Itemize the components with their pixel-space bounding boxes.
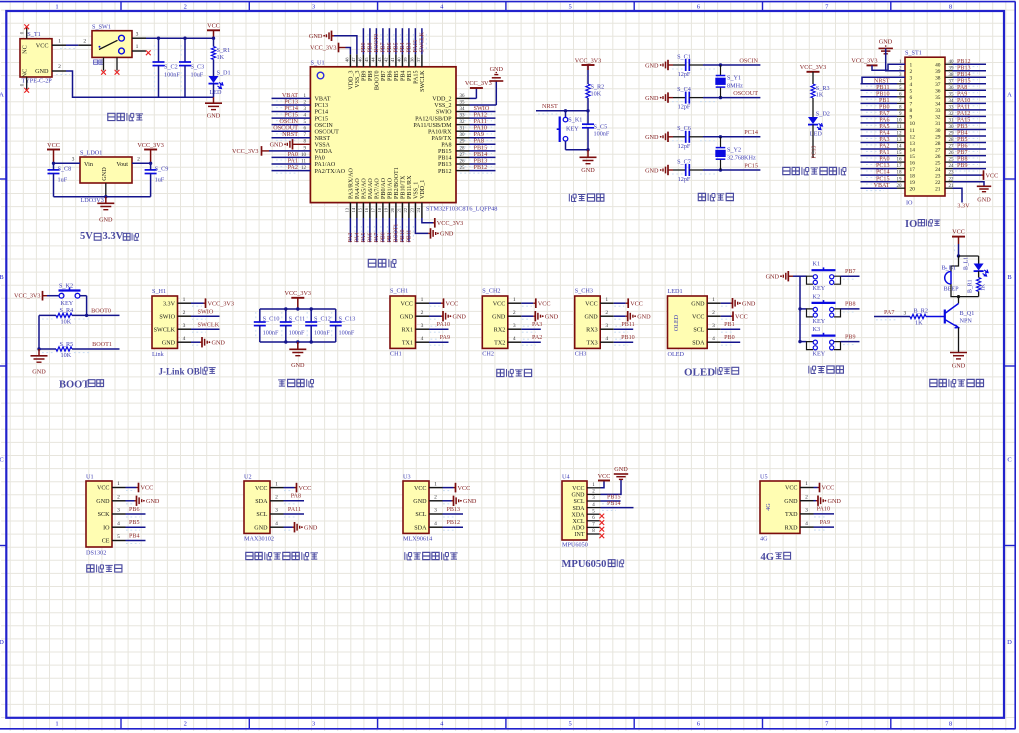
svg-text:GND: GND	[413, 499, 427, 505]
svg-text:PB5: PB5	[957, 137, 968, 143]
svg-text:2: 2	[910, 69, 913, 75]
svg-text:C: C	[0, 457, 4, 464]
svg-text:1K: 1K	[217, 54, 225, 61]
svg-text:PB6: PB6	[957, 144, 968, 150]
svg-text:GND: GND	[35, 68, 49, 75]
svg-text:PA7: PA7	[374, 233, 380, 243]
svg-text:12pF: 12pF	[678, 176, 691, 183]
svg-text:12pF: 12pF	[678, 104, 691, 111]
svg-text:4: 4	[275, 521, 278, 527]
svg-text:9: 9	[910, 115, 913, 121]
svg-text:VCC: VCC	[299, 485, 312, 492]
svg-text:LED: LED	[810, 131, 823, 138]
svg-text:PC13: PC13	[812, 146, 818, 159]
svg-text:37: 37	[935, 82, 941, 88]
svg-text:OSCOUT: OSCOUT	[733, 90, 758, 97]
svg-text:RX2: RX2	[494, 327, 506, 333]
svg-text:3: 3	[72, 156, 75, 162]
svg-text:1: 1	[55, 3, 58, 10]
svg-text:NC: NC	[22, 45, 29, 54]
svg-text:4: 4	[805, 521, 808, 527]
svg-text:28: 28	[935, 141, 941, 147]
svg-text:OLED: OLED	[674, 314, 680, 331]
svg-text:10K: 10K	[61, 319, 72, 326]
svg-text:PC14: PC14	[876, 170, 890, 176]
svg-text:5V: 5V	[80, 231, 93, 242]
svg-text:34: 34	[935, 102, 941, 108]
svg-text:PB12: PB12	[446, 520, 460, 526]
svg-text:OSCIN: OSCIN	[315, 123, 334, 129]
svg-text:VCC: VCC	[141, 485, 154, 492]
svg-text:2: 2	[513, 310, 516, 316]
svg-text:37: 37	[416, 57, 421, 62]
svg-text:SCK: SCK	[98, 512, 110, 518]
svg-text:33: 33	[935, 108, 941, 114]
svg-text:VCC: VCC	[692, 314, 705, 320]
svg-text:KEY: KEY	[566, 125, 579, 132]
svg-text:18: 18	[910, 173, 916, 179]
svg-text:GND: GND	[545, 314, 559, 321]
svg-text:1: 1	[434, 481, 437, 487]
svg-text:3: 3	[117, 508, 120, 514]
svg-text:INT: INT	[575, 532, 585, 538]
svg-text:S_C11: S_C11	[289, 316, 306, 323]
svg-text:PA0: PA0	[315, 156, 325, 162]
svg-text:GND: GND	[309, 33, 323, 40]
svg-text:10K: 10K	[61, 352, 72, 359]
svg-text:GND: GND	[766, 274, 780, 281]
svg-text:RX1: RX1	[401, 327, 413, 333]
svg-text:23: 23	[935, 173, 941, 179]
svg-text:VDD_1: VDD_1	[420, 180, 426, 199]
svg-text:S_C10: S_C10	[263, 316, 280, 323]
svg-text:PB12: PB12	[474, 164, 488, 171]
svg-text:VCC_3V3: VCC_3V3	[437, 220, 463, 227]
svg-text:VCC: VCC	[952, 229, 965, 236]
svg-text:VSS_1: VSS_1	[414, 182, 420, 199]
svg-text:48: 48	[345, 57, 350, 62]
svg-text:BOOT1: BOOT1	[92, 341, 112, 348]
svg-text:100nF: 100nF	[314, 329, 330, 336]
svg-text:S_C8: S_C8	[58, 165, 72, 172]
svg-text:GND: GND	[977, 197, 991, 204]
svg-text:100nF: 100nF	[339, 329, 355, 336]
svg-text:PA7: PA7	[879, 111, 889, 117]
svg-text:GND: GND	[581, 167, 595, 174]
svg-text:PA1: PA1	[879, 150, 889, 156]
svg-text:PB5: PB5	[129, 520, 140, 526]
svg-text:6: 6	[910, 95, 913, 101]
svg-text:TX3: TX3	[587, 340, 598, 346]
svg-text:GND: GND	[99, 216, 113, 223]
svg-text:S_C2: S_C2	[164, 63, 178, 70]
svg-text:1: 1	[421, 297, 424, 303]
svg-text:2: 2	[421, 310, 424, 316]
svg-text:GND: GND	[96, 499, 110, 505]
svg-text:PA7: PA7	[884, 309, 894, 316]
svg-text:2: 2	[605, 310, 608, 316]
svg-text:S_U1: S_U1	[311, 59, 325, 66]
svg-text:42: 42	[384, 57, 389, 62]
svg-text:12pF: 12pF	[678, 71, 691, 78]
svg-text:31: 31	[935, 121, 941, 127]
svg-text:4: 4	[910, 82, 913, 88]
svg-text:PA3: PA3	[532, 322, 542, 328]
svg-text:SCL: SCL	[573, 499, 584, 505]
svg-text:PB4: PB4	[129, 533, 140, 539]
svg-text:VBAT: VBAT	[874, 183, 890, 189]
svg-text:GND: GND	[291, 362, 305, 369]
svg-text:3.3V: 3.3V	[103, 231, 124, 242]
svg-text:XCL: XCL	[573, 519, 585, 525]
svg-text:KEY: KEY	[813, 285, 826, 292]
svg-text:B_L1: B_L1	[964, 257, 970, 270]
svg-text:VCC: VCC	[822, 485, 835, 492]
svg-text:SDA: SDA	[692, 340, 705, 346]
svg-text:SWCLK: SWCLK	[198, 322, 220, 329]
svg-text:S_C12: S_C12	[314, 316, 331, 323]
svg-text:21: 21	[397, 207, 402, 212]
svg-text:1K: 1K	[915, 320, 923, 327]
svg-text:PB5: PB5	[394, 71, 400, 82]
svg-text:VCC_3V3: VCC_3V3	[285, 290, 311, 297]
svg-text:PA3: PA3	[879, 137, 889, 143]
svg-text:BOOT0: BOOT0	[374, 34, 380, 53]
svg-text:PB4: PB4	[401, 71, 407, 82]
svg-text:19: 19	[910, 180, 916, 186]
svg-text:32: 32	[935, 115, 941, 121]
svg-text:PA10: PA10	[817, 507, 830, 513]
svg-text:PA5: PA5	[879, 124, 889, 130]
svg-text:VCC: VCC	[986, 172, 999, 179]
svg-text:13: 13	[345, 207, 350, 212]
svg-text:S_C1: S_C1	[677, 53, 691, 60]
svg-text:Vin: Vin	[84, 161, 93, 168]
svg-text:VCC_3V3: VCC_3V3	[14, 292, 40, 299]
svg-text:PB4: PB4	[957, 131, 968, 137]
svg-text:10uF: 10uF	[191, 71, 204, 78]
svg-text:PC13: PC13	[315, 103, 329, 109]
svg-text:12: 12	[910, 134, 916, 140]
svg-text:PA6: PA6	[879, 118, 889, 124]
svg-text:PC13: PC13	[876, 163, 890, 169]
svg-text:14: 14	[910, 147, 916, 153]
svg-text:CE: CE	[102, 539, 110, 545]
svg-text:4G: 4G	[766, 503, 772, 511]
svg-text:GND: GND	[637, 314, 651, 321]
svg-text:S_R2: S_R2	[591, 83, 605, 90]
svg-text:VCC: VCC	[446, 300, 459, 307]
svg-text:2: 2	[183, 310, 186, 316]
svg-text:VCC: VCC	[36, 42, 49, 49]
svg-text:3: 3	[910, 76, 913, 82]
svg-text:S_R5: S_R5	[60, 341, 74, 348]
svg-text:K3: K3	[813, 326, 821, 333]
svg-text:PA5/AO: PA5/AO	[362, 178, 368, 199]
svg-text:PA11/USB/DM: PA11/USB/DM	[413, 123, 452, 129]
svg-text:U5: U5	[760, 473, 768, 480]
svg-text:17: 17	[910, 167, 916, 173]
svg-text:1: 1	[55, 721, 58, 728]
svg-text:15: 15	[910, 154, 916, 160]
svg-text:2: 2	[184, 3, 187, 10]
svg-text:PA15: PA15	[413, 40, 419, 53]
svg-text:10K: 10K	[591, 90, 602, 97]
svg-text:VSSA: VSSA	[315, 143, 331, 149]
svg-text:41: 41	[390, 57, 395, 62]
svg-text:PB6: PB6	[387, 42, 393, 52]
svg-text:B_R1: B_R1	[968, 279, 974, 293]
svg-text:3: 3	[421, 323, 424, 329]
svg-text:PB11: PB11	[407, 230, 413, 243]
svg-text:8: 8	[949, 3, 952, 10]
svg-text:VCC_3V3: VCC_3V3	[310, 45, 336, 52]
svg-text:21: 21	[935, 187, 941, 193]
svg-text:VCC: VCC	[572, 486, 584, 492]
svg-text:VCC_3V3: VCC_3V3	[232, 148, 258, 155]
svg-text:GND: GND	[207, 112, 221, 119]
svg-text:PA0: PA0	[879, 157, 889, 163]
svg-text:5: 5	[568, 721, 571, 728]
svg-text:KEY: KEY	[61, 300, 74, 307]
svg-text:8: 8	[910, 108, 913, 114]
svg-text:PB0: PB0	[381, 232, 387, 242]
svg-text:TX1: TX1	[402, 340, 413, 346]
svg-text:PA9/TX: PA9/TX	[431, 136, 452, 142]
svg-text:S_ST1: S_ST1	[905, 50, 922, 57]
svg-text:S_R1: S_R1	[217, 47, 231, 54]
svg-text:PB3: PB3	[407, 42, 413, 52]
svg-text:VCC: VCC	[598, 474, 611, 480]
svg-text:PB13: PB13	[438, 162, 452, 168]
svg-text:PA2/TX/AO: PA2/TX/AO	[315, 169, 346, 175]
svg-text:PA2: PA2	[532, 335, 542, 341]
svg-text:PA4/AO: PA4/AO	[355, 178, 361, 199]
svg-text:Vout: Vout	[116, 161, 128, 168]
svg-text:VCC_3V3: VCC_3V3	[800, 64, 826, 71]
svg-text:PB10: PB10	[876, 91, 890, 97]
svg-text:45: 45	[364, 57, 369, 62]
svg-text:3: 3	[605, 323, 608, 329]
svg-text:PB15: PB15	[607, 494, 621, 500]
svg-text:PB14: PB14	[438, 156, 452, 162]
svg-text:PA11: PA11	[957, 105, 970, 111]
svg-text:PB13: PB13	[957, 65, 971, 71]
svg-text:PA4: PA4	[355, 233, 361, 243]
svg-text:VCC: VCC	[400, 301, 413, 307]
svg-text:19: 19	[384, 207, 389, 212]
svg-text:3: 3	[183, 323, 186, 329]
svg-text:PB10: PB10	[621, 335, 635, 341]
svg-text:VCC_3V3: VCC_3V3	[465, 80, 492, 87]
svg-text:20: 20	[910, 187, 916, 193]
svg-text:SDA: SDA	[255, 499, 268, 505]
svg-text:1: 1	[183, 297, 186, 303]
svg-text:TX2: TX2	[494, 340, 505, 346]
svg-text:MPU6050: MPU6050	[562, 559, 607, 570]
svg-text:PA10/RX: PA10/RX	[428, 129, 452, 135]
svg-text:3.3V: 3.3V	[163, 301, 176, 307]
svg-text:Link: Link	[152, 351, 165, 358]
svg-text:VSS_2: VSS_2	[434, 103, 451, 109]
svg-text:4: 4	[421, 336, 424, 342]
svg-text:26: 26	[935, 154, 941, 160]
svg-text:PA8: PA8	[291, 494, 301, 500]
svg-text:GND: GND	[463, 498, 477, 505]
svg-text:D: D	[1007, 639, 1012, 646]
svg-text:PB11: PB11	[621, 322, 634, 328]
svg-text:3: 3	[136, 31, 139, 37]
svg-text:PA3: PA3	[348, 233, 354, 243]
svg-text:S_CH2: S_CH2	[482, 287, 500, 294]
svg-text:4: 4	[712, 336, 715, 342]
svg-text:PB7: PB7	[957, 150, 968, 156]
svg-text:PB9: PB9	[845, 334, 856, 340]
svg-text:VCC_3V3: VCC_3V3	[575, 57, 601, 64]
svg-text:MPU6050: MPU6050	[562, 542, 588, 549]
svg-text:PB14: PB14	[607, 501, 621, 507]
svg-text:GND: GND	[828, 498, 842, 505]
svg-text:NC: NC	[22, 69, 29, 78]
svg-text:PA8: PA8	[957, 85, 967, 91]
svg-text:VDDA: VDDA	[315, 149, 333, 155]
svg-text:17: 17	[371, 207, 376, 212]
svg-text:KEY: KEY	[813, 351, 826, 358]
svg-text:PB15: PB15	[957, 78, 971, 84]
svg-text:GND: GND	[691, 301, 705, 307]
svg-text:PA15: PA15	[957, 118, 970, 124]
svg-text:GND: GND	[784, 499, 798, 505]
svg-text:SCL: SCL	[415, 512, 426, 518]
svg-text:PA6: PA6	[368, 233, 374, 243]
svg-text:VCC: VCC	[585, 301, 598, 307]
svg-text:GND: GND	[952, 362, 966, 369]
svg-text:OLED: OLED	[668, 351, 685, 358]
svg-text:VCC: VCC	[538, 300, 551, 307]
svg-text:13: 13	[910, 141, 916, 147]
svg-text:1: 1	[805, 481, 808, 487]
svg-text:2: 2	[83, 38, 86, 44]
svg-text:SWIO: SWIO	[436, 110, 452, 116]
svg-text:GND: GND	[270, 142, 284, 149]
svg-text:VCC: VCC	[458, 485, 471, 492]
svg-text:5: 5	[568, 3, 571, 10]
svg-text:5: 5	[910, 89, 913, 95]
svg-text:PB3: PB3	[957, 124, 968, 130]
svg-text:A: A	[1007, 92, 1012, 99]
svg-text:BOOT0: BOOT0	[375, 71, 381, 91]
svg-text:U2: U2	[244, 473, 252, 480]
svg-text:VCC: VCC	[97, 486, 110, 492]
svg-text:NRST: NRST	[874, 78, 890, 84]
svg-text:PB8: PB8	[845, 302, 856, 308]
svg-text:GND: GND	[101, 167, 108, 181]
svg-text:GND: GND	[879, 39, 893, 46]
svg-text:PA10: PA10	[957, 98, 970, 104]
svg-text:OSCIN: OSCIN	[739, 57, 758, 64]
svg-text:BOOT1: BOOT1	[394, 224, 400, 243]
svg-text:GND: GND	[146, 498, 160, 505]
svg-text:CH3: CH3	[575, 351, 587, 358]
svg-text:38: 38	[935, 76, 941, 82]
svg-text:TXD: TXD	[785, 512, 798, 518]
svg-text:16: 16	[364, 207, 369, 212]
svg-text:PB0: PB0	[724, 335, 735, 341]
svg-text:PA9: PA9	[957, 91, 967, 97]
svg-text:LED1: LED1	[668, 288, 683, 295]
svg-text:3: 3	[904, 311, 907, 317]
svg-text:S_C3: S_C3	[191, 63, 205, 70]
svg-text:100nF: 100nF	[289, 329, 305, 336]
svg-text:2: 2	[712, 310, 715, 316]
svg-text:PB0/AO: PB0/AO	[381, 177, 387, 199]
svg-text:PA15: PA15	[414, 71, 420, 84]
svg-text:PB9: PB9	[361, 42, 367, 52]
svg-text:100nF: 100nF	[594, 131, 610, 138]
svg-text:GND: GND	[212, 340, 226, 347]
svg-text:PC14: PC14	[744, 129, 758, 136]
svg-text:PB4: PB4	[400, 42, 406, 52]
svg-text:27: 27	[935, 147, 941, 153]
svg-text:22: 22	[403, 207, 408, 212]
svg-text:B_Q1: B_Q1	[960, 310, 975, 317]
svg-text:NPN: NPN	[960, 318, 973, 325]
svg-text:PB5: PB5	[394, 42, 400, 52]
svg-text:1: 1	[910, 63, 913, 69]
svg-text:GND: GND	[32, 369, 46, 376]
svg-text:S_CH3: S_CH3	[575, 287, 593, 294]
svg-text:S_H1: S_H1	[152, 288, 166, 295]
svg-text:VDD_3: VDD_3	[349, 71, 355, 90]
svg-text:S_D1: S_D1	[217, 69, 231, 76]
svg-text:3: 3	[312, 721, 315, 728]
svg-text:S_D2: S_D2	[816, 110, 830, 117]
svg-text:NRST: NRST	[315, 136, 331, 142]
svg-text:1: 1	[58, 38, 61, 44]
svg-text:PA9: PA9	[440, 335, 450, 341]
svg-text:3: 3	[513, 323, 516, 329]
svg-text:18: 18	[377, 207, 382, 212]
svg-text:PA10: PA10	[437, 322, 450, 328]
svg-text:PB9: PB9	[957, 163, 968, 169]
svg-text:2: 2	[275, 495, 278, 501]
svg-text:PB7: PB7	[845, 269, 856, 275]
svg-text:PA2: PA2	[288, 164, 298, 171]
svg-text:GND: GND	[490, 66, 504, 73]
svg-text:2: 2	[58, 64, 61, 70]
svg-text:BOOT0: BOOT0	[91, 307, 111, 314]
svg-text:K1: K1	[813, 261, 821, 268]
svg-text:XDA: XDA	[572, 512, 586, 518]
svg-text:1uF: 1uF	[155, 177, 165, 184]
svg-text:44: 44	[371, 57, 376, 62]
svg-text:PB10: PB10	[400, 229, 406, 242]
svg-text:VCC_3V3: VCC_3V3	[851, 59, 877, 65]
svg-text:38: 38	[410, 57, 415, 62]
svg-text:30: 30	[935, 128, 941, 134]
svg-text:3: 3	[712, 323, 715, 329]
svg-text:PB6: PB6	[388, 71, 394, 82]
svg-text:VBAT: VBAT	[315, 97, 331, 103]
svg-text:2: 2	[137, 156, 140, 162]
svg-text:GND: GND	[400, 314, 414, 320]
svg-text:SWIO: SWIO	[198, 309, 214, 316]
svg-text:J-Link OB: J-Link OB	[159, 367, 200, 377]
svg-text:PA12: PA12	[957, 111, 970, 117]
svg-text:PB7: PB7	[381, 71, 387, 82]
svg-text:PA12/USB/DP: PA12/USB/DP	[415, 116, 452, 122]
svg-text:14: 14	[351, 207, 356, 212]
